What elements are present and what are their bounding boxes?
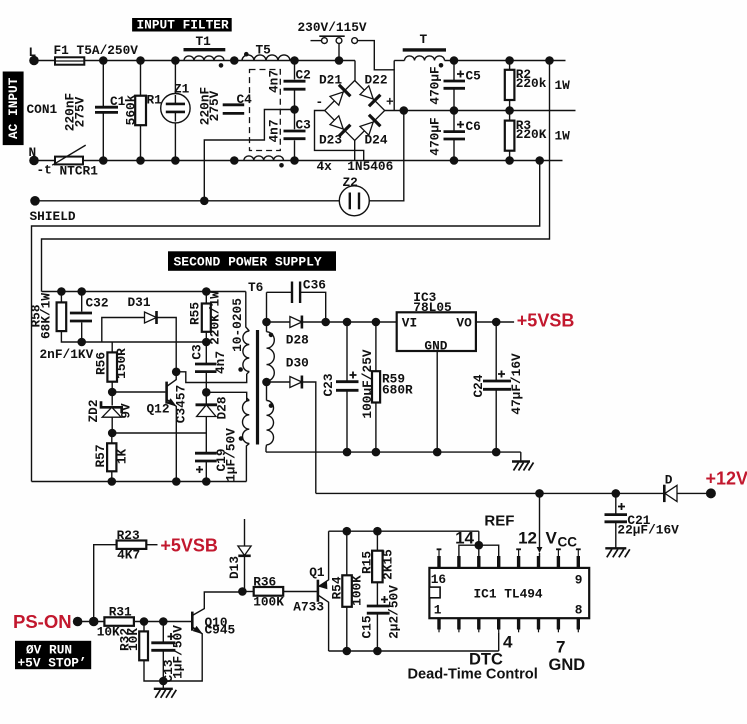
- svg-text:Dead-Time Control: Dead-Time Control: [408, 667, 538, 683]
- svg-text:4n7: 4n7: [267, 70, 282, 93]
- svg-text:220K: 220K: [516, 127, 547, 142]
- svg-text:L: L: [29, 45, 37, 60]
- svg-text:2nF/1KV: 2nF/1KV: [40, 347, 94, 362]
- svg-text:275V: 275V: [207, 90, 222, 121]
- svg-text:R57: R57: [93, 444, 108, 467]
- svg-text:T1: T1: [196, 34, 212, 49]
- svg-text:C5: C5: [466, 69, 482, 84]
- svg-text:ZD2: ZD2: [86, 399, 101, 422]
- svg-text:CC: CC: [558, 535, 578, 550]
- svg-text:CON1: CON1: [27, 102, 58, 117]
- svg-text:T5: T5: [256, 43, 272, 58]
- svg-text:R15: R15: [360, 551, 375, 574]
- svg-text:C2: C2: [296, 68, 311, 83]
- svg-text:D30: D30: [286, 356, 309, 371]
- svg-text:V: V: [546, 529, 558, 548]
- svg-text:N: N: [29, 145, 37, 160]
- svg-text:2K15: 2K15: [381, 549, 396, 580]
- svg-text:220K/1W: 220K/1W: [207, 291, 222, 345]
- svg-text:10-0205: 10-0205: [230, 298, 245, 352]
- svg-text:1W: 1W: [555, 129, 571, 144]
- svg-text:R36: R36: [253, 575, 276, 590]
- svg-text:1µF/50V: 1µF/50V: [223, 428, 238, 482]
- svg-text:D31: D31: [128, 295, 151, 310]
- svg-text:+5VSB: +5VSB: [160, 536, 218, 556]
- svg-text:4K7: 4K7: [117, 548, 140, 563]
- svg-text:9: 9: [575, 572, 583, 587]
- svg-text:+5VSB: +5VSB: [517, 311, 575, 331]
- svg-text:R31: R31: [109, 605, 132, 620]
- svg-text:8: 8: [575, 602, 583, 617]
- svg-text:-: -: [316, 95, 324, 110]
- svg-text:C15: C15: [360, 615, 375, 638]
- svg-text:47µF/16V: 47µF/16V: [509, 353, 524, 415]
- svg-text:2µ2/50V: 2µ2/50V: [387, 585, 402, 639]
- svg-text:10K: 10K: [126, 628, 141, 651]
- svg-text:VO: VO: [456, 316, 472, 331]
- svg-text:D22: D22: [365, 73, 388, 88]
- svg-text:275V: 275V: [72, 96, 87, 127]
- svg-text:220k: 220k: [516, 76, 547, 91]
- svg-text:4n7: 4n7: [267, 119, 282, 142]
- svg-text:150R: 150R: [114, 348, 129, 379]
- svg-text:D28: D28: [215, 396, 230, 419]
- svg-text:230V/115V: 230V/115V: [298, 20, 367, 35]
- svg-text:C32: C32: [86, 296, 109, 311]
- svg-text:IC1 TL494: IC1 TL494: [474, 587, 543, 602]
- svg-text:4: 4: [503, 633, 513, 652]
- svg-text:T: T: [420, 32, 428, 47]
- svg-text:+12V: +12V: [706, 469, 747, 489]
- svg-text:1W: 1W: [555, 78, 571, 93]
- svg-text:+: +: [386, 95, 394, 110]
- svg-text:VI: VI: [402, 316, 417, 331]
- svg-text:Q12: Q12: [147, 402, 170, 417]
- svg-text:12: 12: [518, 529, 537, 548]
- svg-text:Z2: Z2: [343, 175, 358, 190]
- svg-text:4x 1N5406: 4x 1N5406: [317, 159, 394, 174]
- svg-text:R23: R23: [117, 528, 140, 543]
- svg-text:C3: C3: [189, 344, 204, 360]
- svg-text:10K: 10K: [97, 625, 120, 640]
- svg-text:C24: C24: [471, 374, 486, 397]
- svg-text:D13: D13: [227, 556, 242, 579]
- svg-text:INPUT FILTER: INPUT FILTER: [137, 18, 229, 33]
- svg-text:NTCR1: NTCR1: [60, 164, 99, 179]
- svg-text:560k: 560k: [123, 94, 138, 125]
- svg-text:D24: D24: [365, 133, 388, 148]
- svg-text:Z1: Z1: [174, 82, 190, 97]
- svg-text:D28: D28: [286, 333, 309, 348]
- svg-text:1µF/50V: 1µF/50V: [171, 625, 186, 679]
- svg-text:REF: REF: [484, 513, 514, 530]
- svg-text:1K: 1K: [114, 449, 129, 465]
- svg-text:GND: GND: [549, 656, 586, 674]
- svg-text:-t: -t: [37, 163, 52, 178]
- svg-text:C3457: C3457: [173, 385, 188, 423]
- svg-text:470µF: 470µF: [427, 66, 442, 104]
- svg-text:Q1: Q1: [309, 565, 325, 580]
- svg-text:A733: A733: [293, 600, 324, 615]
- svg-text:D21: D21: [319, 73, 342, 88]
- svg-text:R54: R54: [330, 576, 345, 599]
- svg-text:R55: R55: [188, 302, 203, 325]
- svg-text:R56: R56: [94, 352, 109, 375]
- svg-text:AC INPUT: AC INPUT: [6, 77, 21, 139]
- svg-text:D23: D23: [319, 133, 342, 148]
- svg-text:470µF: 470µF: [427, 117, 442, 155]
- svg-text:F1 T5A/250V: F1 T5A/250V: [54, 43, 139, 58]
- svg-text:100K: 100K: [253, 595, 284, 610]
- svg-text:+5V STOP’: +5V STOP’: [18, 656, 87, 671]
- svg-text:SECOND POWER SUPPLY: SECOND POWER SUPPLY: [174, 255, 322, 270]
- svg-text:9V: 9V: [119, 403, 134, 419]
- svg-text:4n7: 4n7: [213, 351, 228, 374]
- svg-text:C36: C36: [303, 278, 326, 293]
- svg-text:PS-ON: PS-ON: [13, 611, 72, 632]
- svg-text:100K: 100K: [350, 575, 365, 606]
- svg-text:22µF/16V: 22µF/16V: [617, 523, 679, 538]
- svg-text:680R: 680R: [382, 383, 413, 398]
- svg-text:SHIELD: SHIELD: [30, 209, 76, 224]
- svg-text:C3: C3: [296, 118, 312, 133]
- svg-text:16: 16: [431, 572, 446, 587]
- svg-text:R1: R1: [147, 93, 163, 108]
- svg-text:C23: C23: [321, 373, 336, 396]
- svg-text:C6: C6: [466, 119, 481, 134]
- svg-text:D: D: [665, 473, 673, 488]
- svg-text:1: 1: [434, 603, 442, 618]
- svg-text:GND: GND: [424, 339, 447, 354]
- svg-text:78L05: 78L05: [413, 300, 452, 315]
- svg-text:7: 7: [556, 638, 565, 657]
- svg-text:T6: T6: [248, 280, 263, 295]
- svg-text:C945: C945: [205, 623, 236, 638]
- svg-text:68K/1W: 68K/1W: [39, 293, 54, 339]
